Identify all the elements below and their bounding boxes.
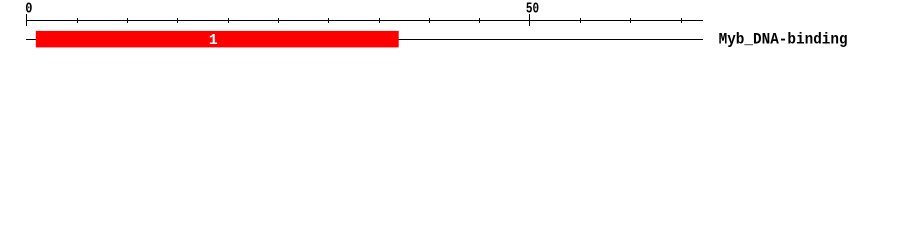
ruler main line xyxy=(26,20,703,21)
ruler minor tick 20 xyxy=(228,18,229,23)
ruler minor tick 15 xyxy=(177,18,178,23)
background xyxy=(0,0,900,58)
ruler minor tick 55 xyxy=(580,18,581,23)
ruler minor tick 25 xyxy=(278,18,279,23)
svg-text:1: 1 xyxy=(209,32,218,49)
ruler minor tick 30 xyxy=(328,18,329,23)
ruler minor tick 10 xyxy=(127,18,128,23)
protein backbone line xyxy=(26,39,703,40)
ruler minor tick 40 xyxy=(429,18,430,23)
ruler minor tick 45 xyxy=(479,18,480,23)
ruler major tick 0 xyxy=(26,14,27,26)
ruler major tick 50 xyxy=(529,14,530,26)
ruler minor tick 60 xyxy=(630,18,631,23)
ruler minor tick 65 xyxy=(681,18,682,23)
svg-text:0: 0 xyxy=(25,0,32,17)
svg-text:Myb_DNA-binding: Myb_DNA-binding xyxy=(719,30,848,48)
domain box Myb_DNA-binding (red) xyxy=(36,31,399,48)
svg-text:50: 50 xyxy=(526,0,539,17)
ruler minor tick 35 xyxy=(379,18,380,23)
ruler minor tick 5 xyxy=(77,18,78,23)
